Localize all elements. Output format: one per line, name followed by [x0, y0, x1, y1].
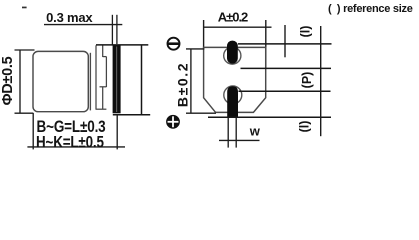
dimension phiD bottom tick [15, 112, 34, 114]
projection line pad1 bottom [241, 67, 332, 69]
dimension phiD vertical line [19, 50, 21, 113]
dimension B bottom tick [186, 112, 216, 114]
seat plate black bar [113, 45, 121, 113]
svg-text:w: w [249, 123, 261, 138]
bung step upper vertical [102, 45, 104, 57]
0.3max extension tick right [116, 15, 118, 44]
dimension w left line [227, 117, 229, 147]
seat plate seam [116, 47, 118, 113]
svg-text:A±0.2: A±0.2 [218, 10, 248, 25]
dimension A left extension [203, 20, 205, 50]
dimension B vertical line [190, 49, 192, 113]
dimension A line [204, 26, 272, 28]
terminal pad top [227, 41, 238, 64]
terminal pad bottom (with stub) [227, 86, 238, 117]
minus symbol [168, 38, 180, 50]
terminal circle bottom [224, 86, 242, 104]
right bracket top line [96, 44, 148, 46]
svg-text:(l): (l) [298, 121, 312, 133]
bottom dim left extension [32, 113, 34, 150]
bung step upper horizontal [103, 56, 107, 58]
bung bottom edge [96, 108, 107, 110]
0.3max extension tick left [111, 15, 113, 46]
dimension A right extension [265, 20, 267, 69]
dimension phiD top tick [15, 49, 35, 51]
projection line pad2 bottom [208, 116, 331, 118]
bung mid vertical [105, 57, 107, 87]
projection line pad2 top [239, 90, 331, 92]
plus symbol [166, 114, 181, 129]
svg-text:(P): (P) [300, 72, 314, 89]
terminal circle top [224, 47, 241, 64]
svg-text:B±0.2: B±0.2 [175, 62, 191, 107]
svg-text:0.3 max: 0.3 max [46, 10, 93, 25]
bung step lower vertical [102, 87, 104, 109]
svg-text:ΦD±0.5: ΦD±0.5 [0, 56, 16, 105]
right bracket vertical [141, 45, 143, 115]
rubber bung left edge [95, 45, 97, 109]
body octagon outline [204, 47, 266, 112]
svg-text:(l): (l) [299, 26, 313, 38]
svg-text:H~K=L±0.5: H~K=L±0.5 [36, 133, 104, 152]
dimension B top tick [186, 48, 204, 50]
can right end seam line [89, 53, 91, 111]
dimension w right line [235, 117, 237, 147]
dimension w tick [219, 139, 260, 141]
capacitor can body [33, 51, 88, 111]
0.3max dimension line [44, 24, 122, 26]
bung step lower horizontal [100, 86, 107, 88]
stray dash mark top-left [22, 7, 27, 9]
svg-text:( ) reference size: ( ) reference size [328, 3, 413, 15]
right dimension vertical line [320, 26, 322, 136]
bottom dimension line [27, 146, 125, 148]
projection line pad1 top [238, 43, 332, 45]
extra tick [284, 25, 286, 57]
bottom dim right extension [116, 115, 118, 150]
right bracket bottom line [113, 114, 150, 116]
